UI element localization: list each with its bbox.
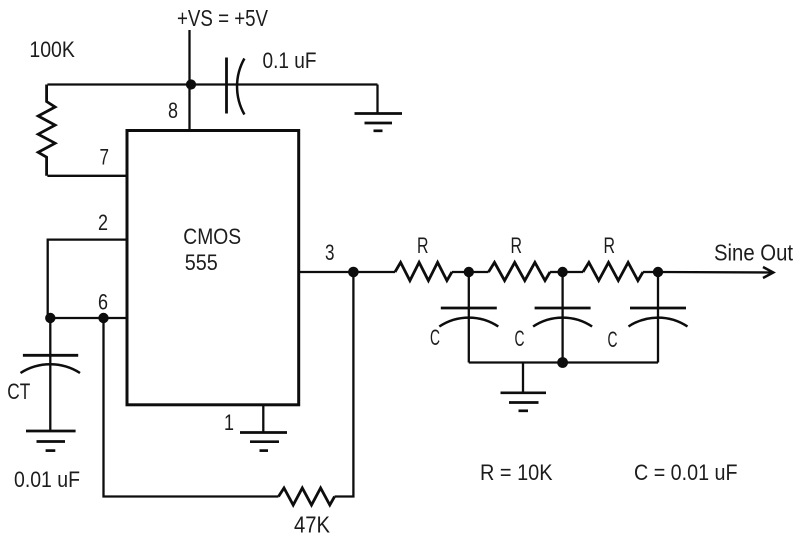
svg-text:C: C (430, 325, 440, 350)
wire output arrow line (658, 271, 772, 274)
wire pin 2 horizontal and left vertical (48, 240, 127, 318)
svg-text:CMOS: CMOS (183, 224, 241, 249)
wire VS supply vertical to pin 8 (188, 30, 190, 131)
svg-text:555: 555 (185, 250, 218, 275)
wire pin 3 to first node (299, 271, 354, 273)
svg-text:2: 2 (98, 210, 108, 235)
wire from pin6 node down and along bottom to 47K (104, 318, 279, 497)
svg-text:47K: 47K (294, 512, 331, 537)
svg-text:C: C (608, 327, 618, 352)
wire drop to ground top right (376, 85, 378, 114)
node ladder node 3 (653, 267, 663, 277)
capacitor C1 stem (468, 272, 470, 363)
resistor 47K (279, 488, 335, 505)
ground for 0.1 uF (355, 114, 403, 131)
node rail junction (557, 357, 568, 368)
wire ladder bottom rail (469, 361, 658, 363)
svg-text:7: 7 (100, 145, 110, 170)
wire pin 1 stem (262, 405, 264, 433)
node pin2/pin6 corner junction (45, 313, 55, 323)
node ladder node 1 (464, 267, 474, 277)
svg-text:1: 1 (224, 410, 234, 435)
capacitor CT curved plate (21, 364, 81, 373)
capacitor 0.1 uF wire through (191, 83, 378, 85)
capacitor CT top plate (23, 354, 78, 357)
node pin 6 junction to 47K (98, 313, 108, 323)
ground for RC ladder (501, 393, 547, 411)
capacitor 0.1 uF curved plate (237, 59, 244, 115)
ground for pin 1 (240, 433, 287, 451)
wire node1 to R2 (469, 271, 489, 273)
node pin 3 junction (348, 267, 359, 278)
wire pin 6 horizontal (48, 317, 127, 319)
ground for CT (26, 431, 76, 451)
capacitor C2 curved plate (533, 318, 592, 327)
capacitor C3 top plate (630, 307, 686, 310)
node ladder node 2 (557, 267, 567, 277)
wire R3 to node3 (643, 271, 658, 273)
resistor 100K (38, 85, 55, 176)
wire node2 to R3 (563, 271, 583, 273)
resistor R1 (395, 262, 452, 280)
svg-text:C = 0.01 uF: C = 0.01 uF (634, 460, 738, 485)
wire ground stem ladder (522, 363, 524, 393)
capacitor C3 stem (657, 272, 659, 363)
wire from 47K up to pin3 node (335, 272, 354, 497)
resistor R3 (583, 262, 643, 280)
svg-text:CT: CT (7, 379, 30, 404)
arrowhead sine out (763, 267, 773, 278)
svg-text:R: R (511, 233, 523, 258)
svg-text:100K: 100K (29, 37, 75, 62)
capacitor 0.1 uF left plate (225, 58, 228, 114)
capacitor C2 top plate (535, 307, 591, 310)
svg-text:Sine Out: Sine Out (714, 240, 794, 266)
svg-text:8: 8 (168, 98, 178, 123)
capacitor C1 top plate (441, 307, 497, 310)
wire top horizontal from 100K to VS node (47, 83, 191, 85)
capacitor C2 stem (561, 272, 563, 363)
node VS junction dot (186, 79, 196, 89)
svg-text:6: 6 (98, 290, 108, 315)
svg-text:0.01 uF: 0.01 uF (14, 467, 80, 492)
svg-text:0.1 uF: 0.1 uF (263, 48, 317, 73)
svg-text:3: 3 (325, 240, 335, 265)
wire pin3 node to R1 (353, 271, 395, 273)
op-amp U1 CMOS 555 box (127, 131, 299, 405)
wire pin 7 horizontal (47, 175, 127, 177)
resistor R2 (489, 262, 551, 280)
wire R1 to node1 (452, 271, 469, 273)
wire R2 to node2 (550, 271, 563, 273)
svg-text:+VS = +5V: +VS = +5V (177, 5, 269, 31)
svg-text:R: R (417, 233, 429, 258)
svg-text:R = 10K: R = 10K (480, 460, 553, 485)
capacitor CT stem (49, 318, 51, 430)
svg-text:R: R (604, 233, 616, 258)
capacitor C3 curved plate (629, 318, 688, 327)
capacitor C1 curved plate (439, 318, 498, 327)
svg-text:C: C (515, 326, 525, 351)
